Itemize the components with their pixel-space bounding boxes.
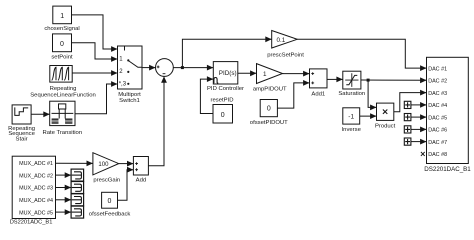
svg-text:DAC #6: DAC #6 [428, 128, 447, 134]
svg-text:DAC #7: DAC #7 [428, 140, 447, 146]
svg-text:Rate Transition: Rate Transition [42, 130, 82, 136]
svg-text:MUX_ADC #3: MUX_ADC #3 [19, 186, 53, 192]
svg-text:0: 0 [108, 198, 112, 205]
svg-text:Switch1: Switch1 [119, 98, 140, 104]
svg-text:Repeating: Repeating [50, 86, 77, 92]
svg-text:0: 0 [221, 112, 225, 119]
svg-text:prescSetPoint: prescSetPoint [267, 53, 304, 59]
svg-text:DAC #5: DAC #5 [428, 115, 447, 121]
svg-text:Inverse: Inverse [342, 127, 362, 133]
svg-text:DS2201ADC_B1: DS2201ADC_B1 [10, 219, 53, 225]
svg-text:DAC #3: DAC #3 [428, 91, 447, 97]
svg-text:Stair: Stair [16, 137, 28, 143]
svg-text:DAC #2: DAC #2 [428, 79, 447, 85]
svg-text:DAC #1: DAC #1 [428, 66, 447, 72]
svg-text:DAC #8: DAC #8 [428, 152, 447, 158]
svg-text:PID Controller: PID Controller [207, 86, 244, 92]
svg-text:MUX_ADC #4: MUX_ADC #4 [19, 198, 53, 204]
svg-text:prescGain: prescGain [93, 178, 120, 184]
svg-text:setPoint: setPoint [51, 54, 73, 60]
svg-text:MUX_ADC #5: MUX_ADC #5 [19, 210, 53, 216]
svg-text:ofssetFeedback: ofssetFeedback [89, 212, 131, 218]
svg-text:0: 0 [267, 106, 271, 113]
svg-text:0.1: 0.1 [277, 37, 286, 44]
svg-text:chosenSignal: chosenSignal [44, 26, 79, 32]
svg-text:-1: -1 [348, 114, 354, 121]
svg-text:DAC #4: DAC #4 [428, 103, 447, 109]
svg-text:Saturation: Saturation [338, 91, 365, 97]
svg-text:DS2201DAC_B1: DS2201DAC_B1 [424, 166, 471, 173]
svg-text:Product: Product [375, 124, 396, 130]
svg-text:resetPID: resetPID [211, 98, 234, 104]
svg-text:1: 1 [60, 13, 64, 20]
svg-text:*,3: *,3 [119, 82, 127, 88]
svg-text:ampPIDOUT: ampPIDOUT [253, 86, 287, 92]
svg-text:MUX_ADC #2: MUX_ADC #2 [19, 173, 53, 179]
svg-text:ofssetPIDOUT: ofssetPIDOUT [250, 120, 288, 126]
svg-text:Add1: Add1 [311, 91, 325, 97]
svg-text:PID(s): PID(s) [219, 70, 237, 77]
svg-text:MUX_ADC #1: MUX_ADC #1 [19, 161, 53, 167]
svg-text:1: 1 [263, 71, 267, 78]
svg-text:Add: Add [136, 178, 146, 184]
svg-text:SequenceLinearFunction: SequenceLinearFunction [30, 93, 96, 99]
svg-text:0: 0 [60, 41, 64, 48]
svg-text:100: 100 [98, 162, 109, 168]
